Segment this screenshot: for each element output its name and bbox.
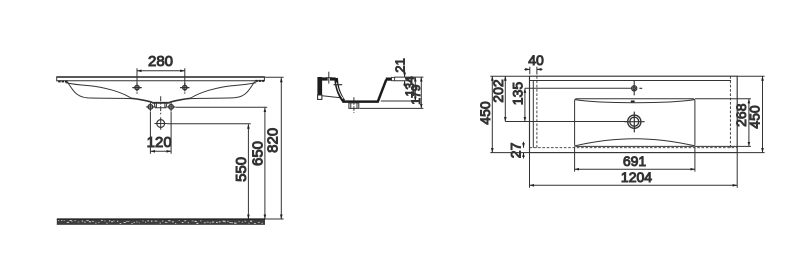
- top view: outer rect: [530, 76, 738, 152]
- section view: overflow hole tick: [334, 84, 343, 86]
- section extension: rim top: [394, 76, 423, 78]
- top view: right extension top (268): [695, 98, 751, 100]
- front view: bowl outer outline: [67, 82, 254, 104]
- dimension 691: [575, 168, 695, 170]
- dimension 550: [247, 124, 249, 219]
- top view: bowl back sag curve: [575, 100, 695, 103]
- dimension 134: [414, 77, 416, 101]
- top view: tap hole: [632, 81, 643, 96]
- top view: right extension bottom (450): [737, 152, 764, 154]
- section view: tap hole gap in rim: [328, 78, 330, 81]
- top view: bowl front curve: [575, 139, 695, 146]
- extension line floor to 820: [265, 218, 284, 220]
- top view: right extension bottom (268): [695, 145, 751, 147]
- front view: drain left bolt: [146, 103, 154, 111]
- section view: back bottom silhouette line: [322, 96, 340, 98]
- dimension 450 left: [491, 76, 493, 152]
- dimension 202: [504, 76, 506, 121]
- section view: drain box centerline: [353, 97, 355, 113]
- dimension 268: [748, 99, 750, 147]
- extension line slab top to 820: [265, 76, 284, 78]
- top view: left ledge inner line: [532, 81, 534, 148]
- section view: drain box: [349, 103, 359, 109]
- svg-text:135: 135: [510, 82, 526, 106]
- front view: drain centerline: [160, 96, 162, 116]
- top view: left extension bottom (450): [490, 152, 529, 154]
- front view: bowl inner edge curve: [66, 83, 257, 103]
- top view: outer extension lines down (1204): [530, 153, 738, 188]
- extension line siphon to 550: [167, 123, 251, 125]
- top view: drain circles: [624, 112, 644, 133]
- section extension: drain bottom (179): [360, 107, 424, 109]
- top view: right extension top (450): [737, 75, 764, 77]
- section extension: bowl bottom (134): [381, 100, 418, 102]
- top view: drain extension line (202/135): [505, 121, 627, 123]
- section view: back bowl wall band: [336, 78, 344, 101]
- svg-text:450: 450: [477, 101, 493, 125]
- svg-text:280: 280: [148, 53, 173, 70]
- svg-text:820: 820: [264, 128, 281, 153]
- svg-text:21: 21: [392, 58, 407, 72]
- top view: back edge offset line: [530, 80, 732, 82]
- section view: bowl bottom band: [342, 100, 378, 103]
- section view: front rim end outline piece: [392, 77, 395, 80]
- svg-text:27: 27: [507, 142, 523, 158]
- svg-text:550: 550: [233, 157, 250, 182]
- section view: wall bracket (black): [317, 77, 322, 99]
- top view: bowl extension lines down (691): [575, 146, 695, 171]
- section view: front bowl wall band: [378, 80, 387, 103]
- dimension 450 right: [762, 76, 764, 152]
- svg-text:450: 450: [747, 105, 763, 129]
- front view: drain right bolt: [167, 103, 175, 111]
- dimension 135: [524, 88, 526, 121]
- svg-text:40: 40: [528, 52, 544, 68]
- top view: hidden line right (40): [729, 76, 731, 148]
- svg-text:1204: 1204: [621, 169, 652, 185]
- section view: front rim bar: [386, 77, 392, 80]
- front view: washbasin top slab: [57, 76, 265, 81]
- dimension 120: [150, 112, 171, 154]
- top view: hidden undercut line: [530, 147, 738, 149]
- section extension: rim bottom (21): [394, 80, 411, 82]
- floor strip: [57, 219, 265, 225]
- svg-text:202: 202: [490, 79, 506, 103]
- section view: back rim bar: [322, 77, 336, 80]
- dimension 280: [137, 68, 185, 85]
- section view: tap hole centerline: [326, 72, 332, 84]
- svg-text:179: 179: [409, 84, 423, 104]
- front view: dark apron strip left end: [58, 80, 67, 82]
- front view: siphon circle: [155, 117, 167, 129]
- top view: hidden line left (40): [536, 76, 538, 148]
- front view: dark apron strip right end: [255, 80, 264, 82]
- top view: overflow hole: [631, 100, 635, 102]
- svg-text:120: 120: [147, 134, 172, 151]
- top view: left extension top (450): [490, 75, 529, 77]
- dimension 820: [280, 78, 282, 219]
- dimension 179: [420, 77, 422, 108]
- dimension 21: [404, 70, 406, 87]
- front view: drain flange: [154, 103, 167, 108]
- front view: left wall fixing hole: [132, 83, 141, 94]
- svg-text:691: 691: [623, 153, 647, 169]
- dimension 650: [264, 108, 266, 219]
- dimension 1204: [530, 184, 738, 186]
- top view: bowl rect: [575, 99, 695, 147]
- dimension 40: [524, 67, 542, 75]
- extension line drain to 650: [176, 106, 268, 108]
- top view: tap extension line (135): [525, 87, 632, 89]
- dimension 27: [523, 142, 525, 159]
- front view: right wall fixing hole: [180, 83, 189, 94]
